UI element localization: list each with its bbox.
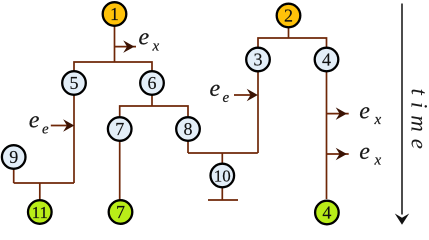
wire event ex line on node1 stem bbox=[115, 46, 137, 48]
arrowhead event ee left bbox=[64, 121, 73, 131]
svg-text:9: 9 bbox=[9, 147, 18, 167]
node 9 bbox=[2, 145, 26, 169]
wire junction 6 to children 7,8 bbox=[120, 106, 188, 116]
wire terminator bar below node 10 bbox=[208, 199, 238, 201]
svg-text:x: x bbox=[374, 112, 382, 128]
wire stem below node 2 bbox=[288, 28, 290, 38]
wire junction 1 to children 5,6 bbox=[74, 62, 152, 72]
node 4 green bbox=[315, 201, 339, 225]
node 11 green bbox=[28, 200, 52, 224]
arrowhead event ee right bbox=[248, 90, 257, 100]
node 10 bbox=[211, 164, 235, 188]
wire stem above node 11 bbox=[39, 183, 41, 200]
wire event ex line A on node4 stem bbox=[327, 113, 349, 115]
arrowhead event ex right B bbox=[337, 149, 346, 159]
wire event ex line B on node4 stem bbox=[327, 153, 349, 155]
wire junction 2 to children 3,4 bbox=[258, 38, 327, 47]
wire event ee line into node3 stem bbox=[234, 94, 253, 96]
svg-text:11: 11 bbox=[32, 203, 48, 222]
svg-text:8: 8 bbox=[184, 119, 193, 139]
svg-text:2: 2 bbox=[284, 6, 293, 26]
svg-text:e: e bbox=[223, 90, 230, 106]
svg-text:10: 10 bbox=[214, 167, 231, 186]
node 5 bbox=[62, 71, 86, 95]
svg-text:5: 5 bbox=[70, 73, 79, 93]
node 3 bbox=[246, 48, 270, 72]
label e_e right bbox=[210, 76, 230, 106]
node 7 blue bbox=[108, 117, 132, 141]
svg-text:4: 4 bbox=[322, 203, 331, 223]
wire event ee line into node5 stem bbox=[51, 125, 69, 127]
wire junction join 9 and 5 bbox=[14, 182, 74, 184]
svg-text:e: e bbox=[29, 108, 40, 134]
svg-text:e: e bbox=[139, 24, 150, 50]
wire stem above node 10 bbox=[221, 153, 223, 163]
wire stem below node 1 bbox=[114, 26, 116, 62]
node 8 bbox=[176, 117, 200, 141]
arrowhead event ex top bbox=[125, 42, 134, 52]
svg-text:e: e bbox=[210, 76, 221, 102]
svg-text:4: 4 bbox=[322, 50, 331, 70]
wire stem below node 5 bbox=[73, 95, 75, 184]
svg-text:6: 6 bbox=[148, 73, 157, 93]
time axis arrowhead bbox=[395, 214, 409, 225]
time axis line bbox=[401, 4, 403, 215]
node 4 blue bbox=[315, 48, 339, 72]
svg-text:7: 7 bbox=[115, 119, 124, 139]
wire stem below node 7 bbox=[119, 142, 121, 200]
label e_e left bbox=[29, 108, 49, 138]
wire stem below node 3 bbox=[257, 72, 259, 154]
label e_x right B bbox=[359, 139, 381, 169]
wire junction join 8 and 3 bbox=[188, 152, 258, 154]
wire stem below node 6 bbox=[151, 95, 153, 107]
label e_x right A bbox=[359, 99, 381, 129]
svg-text:x: x bbox=[374, 152, 382, 168]
svg-text:e: e bbox=[359, 99, 370, 125]
node 7 green bbox=[109, 200, 133, 224]
svg-text:3: 3 bbox=[254, 50, 263, 70]
svg-text:7: 7 bbox=[116, 202, 125, 222]
wire stem below node 4 bbox=[326, 72, 328, 200]
wire stem below node 8 bbox=[187, 142, 189, 154]
wire stem below node 9 bbox=[13, 169, 15, 183]
wire stem below node 10 bbox=[221, 188, 223, 200]
svg-text:e: e bbox=[42, 121, 49, 137]
svg-text:1: 1 bbox=[110, 4, 119, 24]
arrowhead event ex right A bbox=[337, 109, 346, 119]
svg-text:x: x bbox=[152, 38, 160, 54]
node 1 bbox=[103, 2, 127, 26]
svg-text:e: e bbox=[359, 139, 370, 165]
label e_x top bbox=[139, 24, 160, 54]
node 2 bbox=[277, 4, 301, 28]
node 6 bbox=[140, 71, 164, 95]
